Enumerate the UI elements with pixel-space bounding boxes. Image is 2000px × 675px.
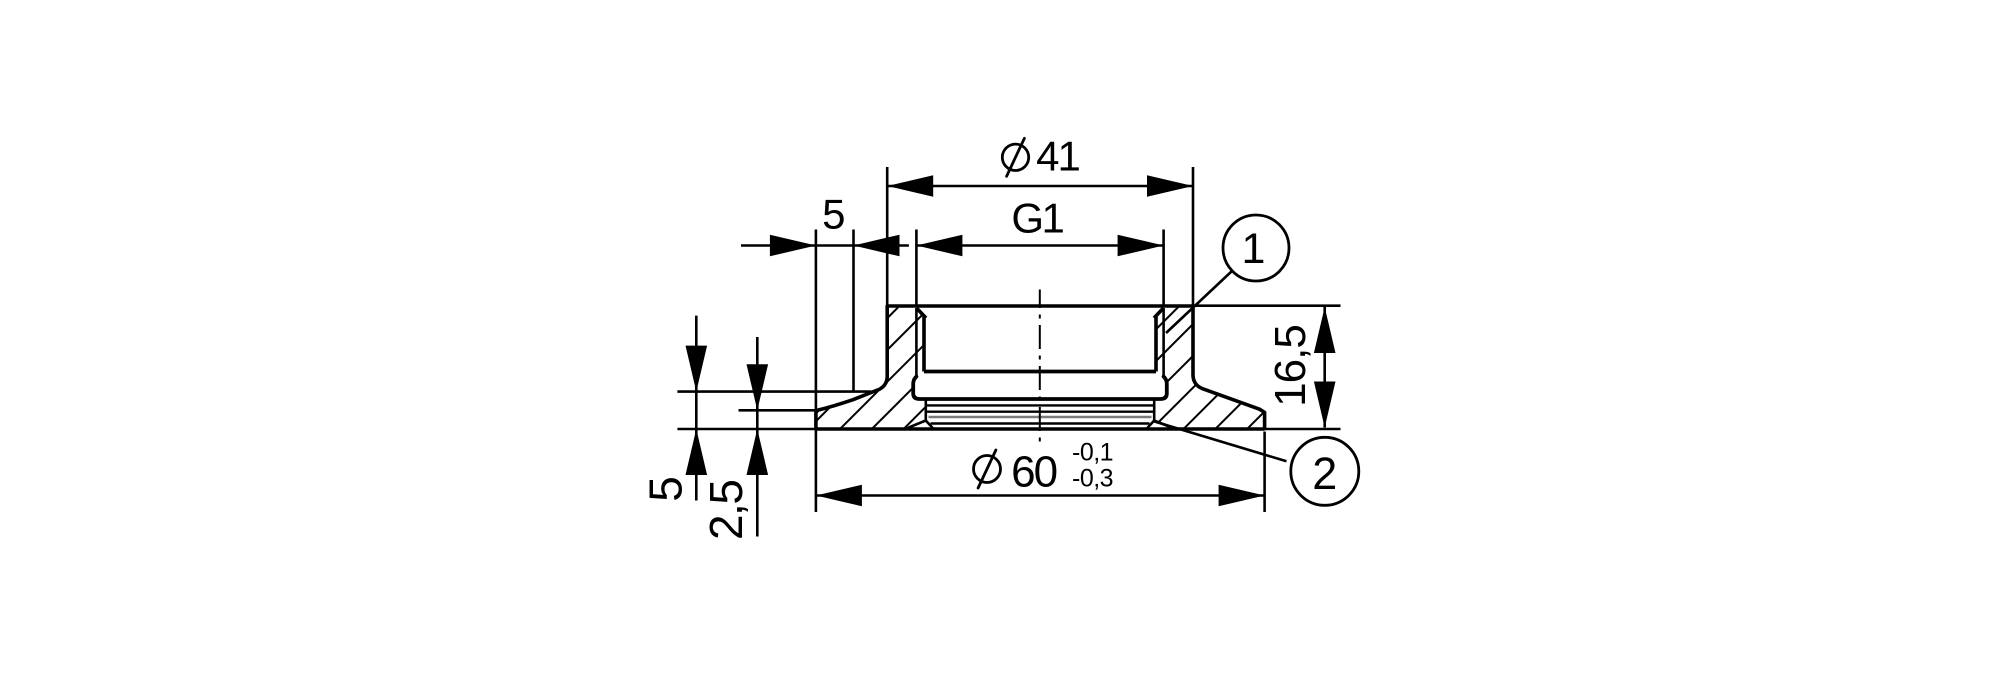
svg-text:5: 5 <box>640 476 692 502</box>
svg-text:41: 41 <box>1036 132 1079 179</box>
svg-text:G1: G1 <box>1011 194 1063 241</box>
svg-text:-0,1: -0,1 <box>1072 439 1113 467</box>
svg-text:-0,3: -0,3 <box>1072 464 1113 492</box>
svg-text:1: 1 <box>1242 225 1266 273</box>
svg-text:2,5: 2,5 <box>700 481 752 540</box>
svg-text:16,5: 16,5 <box>1266 325 1315 407</box>
svg-text:2: 2 <box>1312 448 1337 499</box>
svg-text:60: 60 <box>1011 448 1056 497</box>
svg-text:5: 5 <box>822 191 845 238</box>
